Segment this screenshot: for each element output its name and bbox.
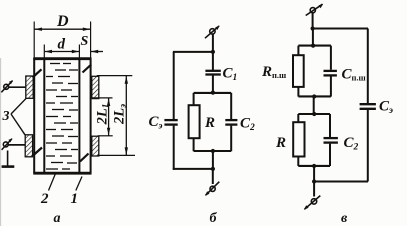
wire loop2 top bar [298, 113, 330, 115]
value label Cpsh [342, 67, 366, 83]
wire loop1 top bar [298, 45, 331, 47]
svg-text:S: S [81, 34, 89, 49]
tube 1 outer wall left [33, 58, 35, 174]
label 2 [40, 191, 49, 207]
leader from 3 to lower electrode [11, 114, 25, 135]
ground [2, 151, 15, 167]
dimension D extension line left [33, 22, 35, 58]
value label C2 (fig b) [240, 116, 255, 134]
wire Rpsh branch upper [297, 46, 299, 56]
dimension D line with arrows [34, 28, 90, 31]
wire R branch upper (fig v) [297, 114, 299, 122]
leader from 1 to tube wall [76, 177, 82, 191]
wire bottom-left to node [173, 168, 213, 170]
liquid 2 fill dashes [46, 64, 78, 170]
electrode 3 lower-right (hatched) [92, 136, 99, 156]
svg-text:1: 1 [71, 191, 79, 207]
svg-text:2: 2 [40, 191, 49, 207]
terminal lower-left [2, 138, 13, 150]
svg-text:2L1: 2L1 [95, 104, 112, 126]
metallization slash lower-right [80, 154, 89, 162]
wire bottom node to terminal [212, 169, 214, 184]
wire lower terminal to electrode [8, 144, 25, 146]
value label C1 [223, 66, 238, 84]
dimension d line with arrows [44, 50, 79, 53]
wire Ce branch upper (fig v) [367, 29, 369, 104]
node loop2 bottom junction [312, 164, 316, 168]
value label C2 (fig v) [344, 135, 359, 153]
wire top terminal down (fig v) [312, 13, 314, 29]
capacitor C1 [205, 71, 220, 75]
value label 2Le (rotated) [112, 104, 129, 125]
value label R (fig v) [275, 135, 286, 151]
node loop1 bottom junction [312, 94, 316, 98]
wire left branch lower [173, 126, 175, 170]
dimension d extension right [78, 45, 80, 58]
electrode 3 lower-left (hatched) [25, 135, 32, 157]
dimension 2Le extension bottom [98, 154, 135, 156]
wire top node down to loop1 [312, 29, 314, 47]
leader from 2 to tube bottom [49, 174, 56, 191]
svg-text:в: в [341, 211, 348, 226]
leader from 3 to upper electrode [11, 98, 26, 114]
wire C2 branch lower (fig b) [230, 126, 232, 152]
wire top terminal down [212, 35, 214, 53]
svg-text:б: б [210, 211, 218, 226]
capacitor C2 (fig v) [324, 138, 338, 143]
node loop1 top junction [311, 44, 315, 48]
wire between loops [313, 97, 315, 115]
node bottom junction (fig b) [211, 167, 215, 171]
terminal top (fig v) [306, 4, 324, 16]
figure label b [210, 211, 218, 226]
metallization slash upper-left [33, 69, 42, 77]
capacitor Cpsh [324, 71, 337, 76]
svg-text:2Lэ: 2Lэ [112, 104, 129, 125]
capacitor C2 (fig b) [225, 120, 237, 125]
terminal bottom (fig v) [304, 196, 321, 210]
wire C2 branch upper (fig b) [230, 93, 232, 119]
wire top to Ce branch [313, 28, 368, 30]
svg-text:D: D [56, 13, 69, 30]
dimension D extension line right [90, 22, 92, 58]
node top junction (fig v) [311, 26, 315, 30]
svg-text:C2: C2 [344, 135, 359, 153]
dimension 2L1 extension bottom [98, 135, 113, 137]
wire Cpsh branch lower [330, 76, 332, 96]
label 1 [71, 191, 79, 207]
capacitor Ce (fig v) [360, 104, 376, 109]
tube 1 bottom face [33, 172, 91, 175]
tube 1 inner wall left [43, 58, 45, 174]
value label Ce (fig b) [149, 114, 163, 132]
wire top to left branch [173, 51, 213, 53]
node loop bottom junction [211, 149, 215, 153]
node middle junction [211, 91, 215, 95]
wire loop top bar (fig b) [194, 92, 232, 94]
value label d [58, 37, 66, 53]
wire left branch upper [173, 52, 175, 119]
tube 1 outer wall right [90, 58, 92, 174]
node top junction [211, 50, 215, 54]
capacitor Ce (fig b) [164, 120, 177, 125]
wire loop2 to bottom node [313, 166, 315, 182]
wire loop to bottom node [212, 151, 214, 170]
electrode 3 upper-left (hatched) [26, 76, 33, 98]
value label Rpsh [261, 64, 286, 80]
label 3 [2, 109, 10, 124]
svg-text:а: а [54, 211, 61, 226]
wire bottom node to Ce branch [314, 181, 368, 183]
svg-text:R: R [204, 115, 215, 131]
tube 1 top face [33, 57, 91, 60]
wire Ce branch lower (fig v) [367, 110, 369, 182]
dimension d extension left [43, 45, 45, 58]
dimension 2Le line with arrows [125, 76, 128, 155]
svg-text:C2: C2 [240, 116, 255, 134]
wire main top to C1 [212, 52, 214, 70]
value label D [56, 13, 69, 30]
svg-text:Rп.ш: Rп.ш [261, 64, 286, 80]
wire upper terminal to electrode [8, 86, 26, 88]
wire loop1 bottom bar [298, 95, 331, 97]
svg-text:d: d [58, 37, 66, 53]
wire R branch lower (fig b) [193, 138, 195, 151]
metallization slash lower-left [33, 148, 42, 156]
wire loop bottom bar (fig b) [194, 150, 232, 152]
svg-text:C1: C1 [223, 66, 238, 84]
wire R branch lower (fig v) [297, 157, 299, 167]
terminal upper-left [1, 80, 13, 92]
dimension 2L1 extension top [92, 97, 113, 99]
node bottom junction (fig v) [312, 179, 316, 183]
tube 1 inner wall right [78, 58, 80, 174]
value label R (fig b) [204, 115, 215, 131]
wire C2 branch lower (fig v) [329, 144, 331, 166]
svg-text:R: R [275, 135, 286, 151]
resistor Rpsh [293, 55, 304, 87]
wire R branch upper (fig b) [193, 93, 195, 105]
wire C2 branch upper (fig v) [329, 114, 331, 137]
wire Rpsh branch lower [297, 87, 299, 97]
value label S [81, 34, 89, 49]
wire C1 to middle node [212, 76, 214, 94]
svg-text:Cп.ш: Cп.ш [342, 67, 366, 83]
terminal bottom (fig b) [205, 182, 219, 196]
wire bottom node to terminal (fig v) [313, 182, 315, 197]
resistor R (fig v) [293, 122, 304, 156]
value label 2L1 (rotated) [95, 104, 112, 126]
figure label a [54, 211, 61, 226]
page edge scan artifact [0, 58, 2, 226]
wire Cpsh branch upper [330, 46, 332, 70]
value label Ce (fig v) [379, 99, 393, 117]
electrode 3 upper-right (hatched) [92, 76, 99, 98]
dimension 2L1 line with arrows [107, 98, 110, 135]
svg-text:Cэ: Cэ [379, 99, 393, 117]
node loop2 top junction [312, 112, 316, 116]
figure label v [341, 211, 348, 226]
svg-text:Cэ: Cэ [149, 114, 163, 132]
dimension S arrow (outside right) [91, 50, 103, 53]
metallization slash upper-right [83, 65, 92, 73]
terminal top (fig b) [205, 26, 220, 39]
wire loop2 bottom bar [298, 165, 330, 167]
svg-text:3: 3 [2, 109, 10, 124]
dimension 2Le extension top [97, 75, 133, 77]
resistor R (fig b) [189, 105, 200, 138]
